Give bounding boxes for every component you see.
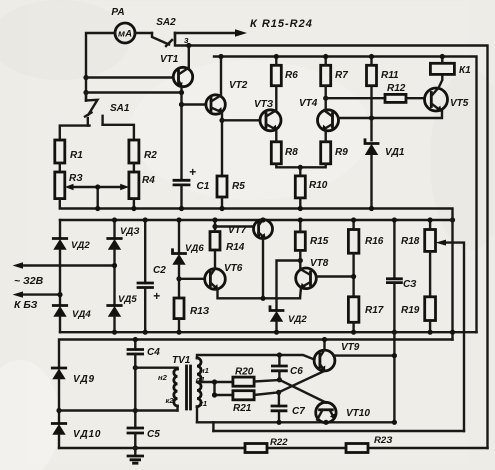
svg-text:С7: С7: [292, 406, 305, 417]
meter PA: [111, 7, 135, 43]
resistor R21: [233, 391, 279, 414]
svg-text:VД9: VД9: [73, 374, 95, 385]
svg-text:к1: к1: [199, 399, 207, 408]
node AC on VD3 leg: [112, 263, 117, 268]
wire R18 wiper feedback: [436, 240, 465, 431]
node K1 on bus B: [440, 54, 445, 59]
diode VD9: [52, 368, 95, 424]
diode VD3: [108, 220, 140, 306]
svg-text:R8: R8: [285, 147, 298, 158]
wire common vertical C3 line down to emitter line: [393, 332, 395, 422]
switch SA2: [152, 17, 189, 46]
wire bus A from SA2 across top to right edge down to bottom line: [175, 33, 488, 448]
node wiper: [95, 184, 100, 189]
node C2 top: [143, 217, 148, 222]
node meter feed / VT1 base: [83, 75, 88, 80]
node C6 bottom / R20: [277, 377, 282, 382]
node C6 top: [277, 352, 282, 357]
svg-text:R5: R5: [232, 181, 245, 192]
svg-text:ТV1: ТV1: [172, 355, 191, 366]
svg-text:R22: R22: [270, 437, 288, 448]
svg-text:С6: С6: [290, 366, 303, 377]
wire VT2 emitter down to R5: [221, 113, 223, 177]
node C4 on bus: [133, 337, 138, 342]
node VD5 leg on bottom bus: [112, 330, 117, 335]
node VT4 collector / R12 tap: [323, 96, 328, 101]
wire feed branch to VT1 emitter / C1 vertical: [86, 91, 182, 93]
svg-text:R18: R18: [401, 236, 420, 247]
node C3 bottom: [392, 330, 397, 335]
zener diode VD6: [172, 220, 204, 298]
svg-text:R20: R20: [235, 367, 254, 378]
wire oscillator emitter line: [197, 421, 394, 423]
transistor VT5: [425, 88, 469, 111]
node R17 bottom: [351, 330, 356, 335]
node R15 bottom / VD7 branch: [298, 258, 303, 263]
node C7 bottom on emitter line: [276, 420, 281, 425]
capacitor C3: [387, 220, 417, 332]
svg-text:VТ1: VТ1: [160, 54, 179, 65]
node meter feed / C1 branch: [83, 90, 88, 95]
transistor VT6: [205, 263, 243, 290]
wire VT6 base: [179, 278, 205, 280]
node R21 / C7 top: [276, 390, 281, 395]
diode VD4: [53, 306, 91, 333]
svg-text:VТ6: VТ6: [224, 263, 243, 274]
diode VD5: [108, 294, 138, 332]
wire secondary middle tap: [197, 381, 233, 383]
svg-text:RЗ: RЗ: [69, 173, 83, 184]
svg-text:VД2: VД2: [71, 240, 90, 251]
wire VD7 branch: [277, 261, 301, 311]
resistor R3 (preset): [55, 172, 83, 199]
wire feedback line to R18 wiper: [213, 430, 464, 432]
svg-text:С4: С4: [147, 347, 160, 358]
svg-text:VТЗ: VТЗ: [254, 99, 274, 110]
resistor R11: [367, 57, 400, 141]
wire VT7 emitter down: [262, 239, 264, 299]
resistor R4 (preset): [129, 172, 155, 199]
node VT7 collector on bus: [260, 217, 265, 222]
wire secondary bottom tap down to emitter line: [196, 407, 198, 423]
wire bus B across top to right vertical down to mid bus: [214, 57, 477, 333]
node VD3 leg on top bus: [112, 217, 117, 222]
wire VT3 base: [222, 119, 260, 121]
wire meter left to feed vertical: [86, 33, 115, 101]
resistor R16: [348, 220, 383, 297]
wire VT2 collector to bus B: [220, 57, 222, 96]
resistor R1: [55, 140, 83, 163]
node R16 top: [351, 217, 356, 222]
node VT10 emitter on line: [323, 420, 328, 425]
wire right link down to lower section: [451, 220, 453, 340]
svg-text:к2: к2: [166, 396, 175, 405]
wire К БЗ output with arrow: [13, 291, 61, 311]
resistor R20: [233, 367, 280, 387]
wire mid section bottom bus: [60, 331, 477, 333]
transistor VT9: [314, 342, 360, 371]
transistor VT3: [254, 99, 281, 131]
svg-text:R7: R7: [335, 70, 348, 81]
node C4 / primary top tap: [133, 365, 138, 370]
resistor R5: [217, 176, 245, 209]
node VD6 / VT6 base: [176, 276, 181, 281]
svg-text:н2: н2: [158, 373, 168, 382]
node vertical on emitter line: [392, 420, 397, 425]
node R15 top: [298, 217, 303, 222]
node C3 top: [392, 217, 397, 222]
node КБЗ on VD2 leg: [57, 292, 62, 297]
svg-text:К1: К1: [459, 65, 471, 76]
node R8 R9 junction: [298, 165, 303, 170]
node R13 bottom: [176, 330, 181, 335]
svg-text:VД10: VД10: [73, 429, 101, 440]
transformer TV1: [59, 355, 209, 411]
wire VT8 base to divider: [316, 275, 353, 277]
svg-text:VД5: VД5: [118, 294, 137, 305]
switch SA1: [85, 93, 130, 126]
transistor VT7: [228, 220, 273, 239]
svg-text:R17: R17: [365, 305, 384, 316]
wire VT7 base: [215, 225, 254, 227]
capacitor C1: [174, 165, 210, 209]
svg-text:R21: R21: [233, 403, 252, 414]
svg-text:РА: РА: [111, 7, 124, 18]
svg-text:+: +: [189, 165, 196, 179]
svg-text:R19: R19: [401, 305, 420, 316]
diode VD2: [53, 220, 90, 306]
node R6 on bus B: [274, 54, 279, 59]
svg-text:К R15-R24: К R15-R24: [250, 18, 313, 30]
node bus A / VT1 collector: [186, 43, 191, 48]
wire R1 to R3: [59, 163, 61, 172]
wire arrow К R15-R24: [175, 18, 313, 37]
wire SA1 right branch: [103, 125, 134, 140]
svg-text:VТ4: VТ4: [299, 98, 318, 109]
resistor R6: [271, 57, 298, 111]
resistor R19: [401, 297, 436, 332]
svg-text:R6: R6: [285, 70, 298, 81]
svg-text:R1: R1: [70, 150, 83, 161]
ground: [128, 448, 143, 463]
wire VT1 base from feed: [86, 76, 173, 78]
zener diode VD1: [365, 140, 405, 209]
node R14 top: [212, 217, 217, 222]
wire cross coupling C6 node to VT10: [279, 380, 326, 403]
transistor VT2: [206, 80, 248, 114]
wire VT2 base: [182, 103, 206, 105]
transistor VT10: [316, 402, 371, 422]
wire meter to SA2: [135, 32, 152, 34]
resistor R13: [174, 298, 210, 332]
resistor R12: [326, 83, 425, 102]
svg-text:R2З: R2З: [374, 435, 392, 446]
transistor VT8 (mirrored): [296, 258, 329, 298]
resistor R9: [300, 130, 348, 167]
node VT4 base / R11 / VD1: [369, 115, 374, 120]
svg-text:R4: R4: [142, 175, 155, 186]
node tap split top: [212, 379, 217, 384]
capacitor C7: [272, 392, 305, 422]
node R19 bottom: [428, 330, 433, 335]
svg-text:R2: R2: [144, 150, 157, 161]
wire jog down to feedback line: [212, 422, 214, 431]
wire VT1 emitter down to C1: [180, 87, 182, 180]
svg-text:VДЗ: VДЗ: [120, 226, 140, 237]
wire tap split to R21: [215, 382, 233, 395]
svg-text:К БЗ: К БЗ: [14, 299, 38, 311]
resistor R14: [210, 220, 245, 253]
svg-text:н1: н1: [200, 366, 209, 375]
svg-text:VД6: VД6: [185, 243, 204, 254]
wire VT1 collector: [188, 46, 190, 69]
resistor R8: [271, 130, 300, 167]
wire bottom bus of top section: [60, 199, 453, 220]
capacitor C6: [272, 355, 303, 380]
svg-text:С5: С5: [147, 429, 160, 440]
svg-text:VТ9: VТ9: [341, 342, 360, 353]
node R10 on bus: [298, 206, 303, 211]
wire emitter rail VT6-VT8: [218, 289, 301, 298]
node link crosses bottom bus: [450, 330, 455, 335]
svg-text:С2: С2: [153, 265, 166, 276]
svg-text:мА: мА: [118, 29, 132, 40]
node R5 on bus: [219, 206, 224, 211]
svg-text:R9: R9: [335, 147, 348, 158]
node R4 on bus: [131, 206, 136, 211]
node VT3 base tap: [219, 118, 224, 123]
wire VT5 collector to relay: [438, 74, 442, 88]
wire VT9 right lead to common vertical: [334, 354, 395, 356]
svg-text:VД4: VД4: [72, 309, 91, 320]
wire R2 to R4: [133, 163, 135, 172]
capacitor C5: [128, 428, 160, 448]
svg-text:VТ7: VТ7: [228, 225, 247, 236]
wire AC input ~32V with arrow: [13, 262, 115, 287]
node C1 on bus: [179, 206, 184, 211]
svg-text:С1: С1: [197, 181, 210, 192]
resistor R15: [295, 220, 328, 270]
wire wiper R3-R4 with arrows: [65, 184, 129, 209]
node VD9-VD10 / winding return: [56, 408, 61, 413]
svg-text:VД2: VД2: [288, 314, 307, 325]
svg-text:R1З: R1З: [190, 306, 210, 317]
node C5 / ground on bottom line: [133, 445, 138, 450]
node primary bottom crossing: [133, 408, 138, 413]
node VT9 lead on vertical: [392, 353, 397, 358]
wire VT4 base to VD1 node and VT5 emitter: [338, 111, 442, 118]
node VT8 base on divider: [351, 274, 356, 279]
transistor VT4 (mirrored): [299, 98, 339, 131]
svg-text:SA1: SA1: [110, 103, 130, 114]
node C2 bottom: [143, 330, 148, 335]
wire cross coupling VT9 emitter to C7 node: [279, 371, 325, 392]
node section1 bus / vertical link: [450, 217, 455, 222]
node VT7 emitter on rail: [260, 296, 265, 301]
svg-text:VТ10: VТ10: [346, 408, 370, 419]
svg-text:VТ8: VТ8: [310, 258, 329, 269]
node VD1 on bus: [369, 206, 374, 211]
svg-text:VТ2: VТ2: [229, 80, 248, 91]
node VT2 collector on bus B: [218, 54, 223, 59]
resistor R22: [245, 437, 288, 453]
svg-text:SA2: SA2: [156, 17, 176, 28]
wire R4 bottom: [133, 199, 135, 209]
node VD6 top: [176, 217, 181, 222]
wire bottom line with R22 R23: [59, 447, 488, 449]
wire secondary top tap to C6/VT9: [197, 355, 314, 360]
svg-text:+: +: [153, 289, 160, 303]
svg-text:R14: R14: [226, 242, 245, 253]
resistor R10: [295, 167, 327, 208]
node wiper on bus: [95, 206, 100, 211]
node R11 on bus B: [369, 54, 374, 59]
resistor R18 (pot): [401, 220, 436, 297]
node VD7 bottom: [274, 330, 279, 335]
wire VT6 collector to R14: [214, 250, 216, 269]
resistor R7: [321, 57, 349, 111]
resistor R17: [348, 297, 383, 332]
node VT7 base tap: [212, 224, 217, 229]
svg-text:R10: R10: [309, 180, 328, 191]
node R7 on bus B: [323, 54, 328, 59]
zener diode VD7: [270, 307, 308, 332]
diode VD10: [52, 424, 101, 449]
svg-text:VД1: VД1: [385, 147, 405, 158]
resistor R2: [129, 140, 157, 163]
node tap split bottom: [212, 392, 217, 397]
svg-text:VТ5: VТ5: [450, 98, 469, 109]
wire mid section top bus: [60, 219, 453, 221]
wire SA1 left branch: [60, 126, 90, 140]
wire lower section top bus: [59, 340, 453, 369]
svg-text:R16: R16: [365, 236, 384, 247]
node emitter/branch: [179, 90, 184, 95]
node VT9 collector on bus: [322, 337, 327, 342]
svg-text:СЗ: СЗ: [403, 279, 417, 290]
svg-text:R15: R15: [310, 236, 329, 247]
relay coil K1: [430, 57, 471, 77]
capacitor C2: [138, 220, 166, 332]
svg-text:R12: R12: [387, 83, 406, 94]
capacitor C4: [128, 340, 160, 429]
svg-text:R11: R11: [381, 70, 399, 81]
svg-text:~ З2В: ~ З2В: [14, 275, 44, 287]
transistor VT1: [160, 54, 193, 88]
node R18 top: [428, 217, 433, 222]
node VT2 base tap: [179, 102, 184, 107]
wire VT9 collector to bus: [323, 340, 325, 351]
resistor R23: [346, 435, 392, 453]
